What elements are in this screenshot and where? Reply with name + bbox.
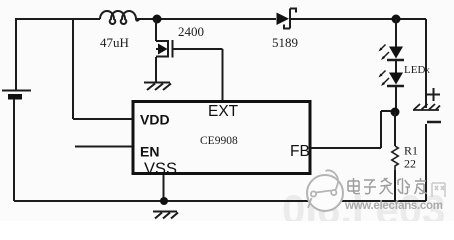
inductor L1 — [100, 11, 139, 24]
wire FB pin — [311, 111, 391, 148]
wire EN stub — [75, 146, 133, 148]
capacitor C1 bottom plate — [427, 121, 441, 124]
svg-text:5189: 5189 — [272, 35, 298, 50]
wire LED string top — [395, 19, 397, 47]
svg-text:VSS: VSS — [144, 160, 177, 178]
watermark logo swoosh — [308, 170, 338, 208]
node drain junction — [153, 15, 162, 24]
svg-text:47uH: 47uH — [100, 35, 129, 50]
wire bottom rail — [14, 200, 426, 202]
wire R1 to rail — [394, 170, 396, 201]
wire LED2 to FB node — [395, 87, 397, 112]
svg-text:2400: 2400 — [178, 24, 204, 39]
wire top rail — [15, 18, 276, 20]
wire VDD branch — [73, 19, 133, 119]
LED D2 — [389, 47, 403, 59]
op-amp U1 CE9908 box — [133, 102, 310, 174]
svg-text:LED: LED — [404, 64, 425, 76]
capacitor C1 top plate hatched — [413, 104, 440, 110]
svg-text:VDD: VDD — [140, 112, 170, 128]
wire between LEDs — [395, 61, 397, 73]
wire node to R1 — [394, 112, 396, 146]
svg-text:CE9908: CE9908 — [200, 135, 238, 147]
watermark hanzi 电子发烧友 — [348, 178, 427, 194]
svg-text:R1: R1 — [404, 144, 418, 158]
capacitor C1 plus sign — [427, 88, 440, 101]
node output junction — [392, 15, 401, 24]
svg-text:EXT: EXT — [208, 103, 239, 120]
wire drain vertical — [155, 19, 157, 41]
ground under Q1 — [144, 83, 171, 91]
wire gate to EXT — [173, 49, 223, 101]
node VSS junction — [160, 197, 168, 205]
LED D3 — [389, 73, 403, 85]
wire battery down — [13, 99, 15, 201]
svg-text:22: 22 — [404, 157, 416, 171]
battery B1 negative plate — [8, 94, 22, 100]
svg-text:EN: EN — [140, 144, 159, 160]
wire left vertical — [15, 18, 17, 90]
wire right branch down — [425, 19, 427, 108]
watermark logo circle — [307, 175, 343, 211]
resistor R1 — [392, 146, 398, 170]
node FB junction — [391, 108, 400, 117]
wire cap to rail — [425, 124, 427, 201]
ground bottom — [153, 212, 178, 219]
svg-text:FB: FB — [290, 143, 310, 160]
diode D1 5189 — [277, 13, 290, 26]
wire diode to corner — [291, 18, 426, 20]
battery B1 positive plate — [2, 90, 31, 92]
watermark hanzi 网 faint — [432, 183, 445, 197]
wire VSS to rail — [163, 175, 165, 201]
svg-text:www.elecfans.com: www.elecfans.com — [344, 200, 443, 212]
transistor Q1 2400 — [156, 40, 173, 58]
wire source to ground — [155, 57, 157, 82]
watermark big faint text — [282, 186, 445, 233]
